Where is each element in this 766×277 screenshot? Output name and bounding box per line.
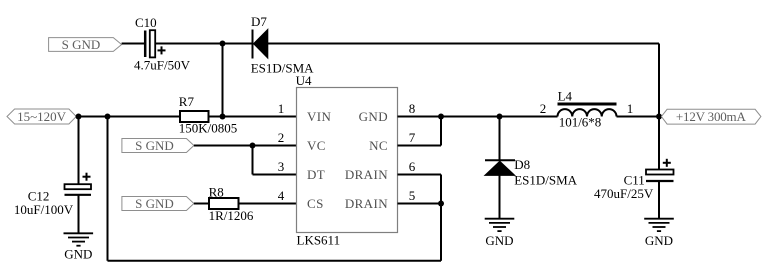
svg-text:8: 8: [409, 101, 416, 116]
svg-text:D7: D7: [251, 14, 267, 29]
ground symbol (C11): [644, 219, 674, 231]
wire flag to R8: [194, 203, 209, 205]
resistor R8: [209, 198, 239, 209]
svg-text:1R/1206: 1R/1206: [209, 208, 254, 223]
svg-text:D8: D8: [514, 157, 530, 172]
wire D8 to ground: [499, 175, 501, 218]
svg-text:R8: R8: [209, 185, 224, 200]
wire D7 to top-right corner: [268, 43, 659, 45]
wire C12 to ground: [78, 195, 80, 234]
svg-text:7: 7: [409, 130, 416, 145]
wire pin 8 rail to L4: [398, 116, 558, 118]
diode D8: [485, 160, 515, 175]
svg-text:1: 1: [627, 101, 634, 116]
wire C10 to junction: [156, 43, 223, 45]
svg-text:ES1D/SMA: ES1D/SMA: [514, 172, 577, 187]
svg-text:DRAIN: DRAIN: [345, 167, 388, 182]
svg-text:LKS611: LKS611: [297, 232, 341, 247]
wire top-right vertical down to +12V node: [658, 44, 660, 117]
wire pin 5 stub: [398, 203, 442, 205]
svg-text:VIN: VIN: [307, 109, 332, 124]
svg-text:4: 4: [278, 188, 285, 203]
wire drain bus bottom: [108, 260, 442, 262]
svg-text:S GND: S GND: [135, 196, 174, 211]
svg-text:R7: R7: [179, 94, 195, 109]
svg-text:CS: CS: [307, 196, 324, 211]
net flag +12V 300mA: [661, 109, 761, 124]
svg-text:15~120V: 15~120V: [17, 109, 67, 124]
capacitor C10: [145, 30, 165, 57]
wire rail down to C12: [78, 117, 80, 185]
svg-text:L4: L4: [558, 88, 573, 103]
svg-text:U4: U4: [296, 73, 312, 88]
svg-text:2: 2: [540, 101, 547, 116]
wire pin 6 stub: [398, 174, 442, 176]
wire junction down to pin 7 level: [440, 117, 442, 146]
svg-text:GND: GND: [359, 109, 388, 124]
wire drain bus right vertical: [440, 175, 442, 261]
junction VC/DT: [250, 143, 256, 149]
wire +12V node down to C11: [658, 117, 660, 170]
resistor R7: [180, 111, 209, 122]
net flag S GND (VC/DT): [122, 138, 194, 153]
junction rail/drain bus: [105, 114, 111, 120]
inductor L4: [558, 104, 617, 117]
svg-text:GND: GND: [64, 247, 92, 262]
svg-text:10uF/100V: 10uF/100V: [14, 202, 74, 217]
net flag 15~120V: [7, 109, 76, 124]
svg-text:2: 2: [278, 130, 285, 145]
svg-text:DRAIN: DRAIN: [345, 196, 388, 211]
wire C11 to ground: [658, 181, 660, 219]
wire drain bus left vertical: [107, 117, 109, 261]
wire junction to D7: [223, 43, 253, 45]
svg-text:NC: NC: [369, 138, 388, 153]
junction C10 vertical on VIN wire: [220, 114, 226, 120]
svg-text:3: 3: [278, 159, 285, 174]
ground symbol (C12): [64, 233, 94, 245]
svg-text:6: 6: [409, 159, 416, 174]
svg-text:GND: GND: [645, 233, 673, 248]
svg-text:C10: C10: [135, 15, 157, 30]
wire vertical C10 node to VIN wire: [222, 44, 224, 117]
wire L4 to +12V node: [617, 116, 660, 118]
svg-text:+12V 300mA: +12V 300mA: [676, 109, 747, 124]
junction +12V node: [656, 114, 662, 120]
svg-text:VC: VC: [307, 138, 326, 153]
op-amp U4 body (LKS611 IC): [297, 88, 398, 233]
diode D7: [253, 29, 268, 58]
svg-text:4.7uF/50V: 4.7uF/50V: [134, 58, 191, 73]
junction rail/D8: [497, 114, 503, 120]
wire D8 top lead: [499, 117, 501, 161]
wire pin 7 stub: [398, 145, 442, 147]
wire R8 to CS pin 4: [239, 203, 297, 205]
net flag S GND (CS): [122, 196, 194, 211]
wire flag to VC pin 2: [194, 145, 297, 147]
wire to DT pin 3: [253, 174, 297, 176]
ground symbol (D8): [485, 219, 515, 231]
svg-text:150K/0805: 150K/0805: [179, 121, 238, 136]
svg-text:1: 1: [278, 101, 285, 116]
svg-text:S GND: S GND: [62, 37, 101, 52]
wire junction down to DT level: [252, 146, 254, 175]
wire input rail to R7: [76, 116, 180, 118]
junction rail/C12: [76, 114, 82, 120]
capacitor C12: [65, 173, 92, 195]
wire R7 to pin 1 VIN: [209, 116, 297, 118]
net flag S GND (top left): [49, 37, 122, 52]
svg-text:S GND: S GND: [135, 138, 174, 153]
junction pin5/drain bus: [438, 201, 444, 207]
capacitor C11: [646, 159, 674, 181]
svg-text:101/6*8: 101/6*8: [559, 115, 602, 130]
junction pin8/pin7: [438, 114, 444, 120]
svg-text:470uF/25V: 470uF/25V: [594, 186, 654, 201]
junction top of C10/R7 vertical: [220, 41, 226, 47]
svg-text:DT: DT: [307, 167, 325, 182]
wire flag to C10: [122, 43, 144, 45]
svg-text:GND: GND: [485, 233, 513, 248]
svg-text:5: 5: [409, 188, 416, 203]
